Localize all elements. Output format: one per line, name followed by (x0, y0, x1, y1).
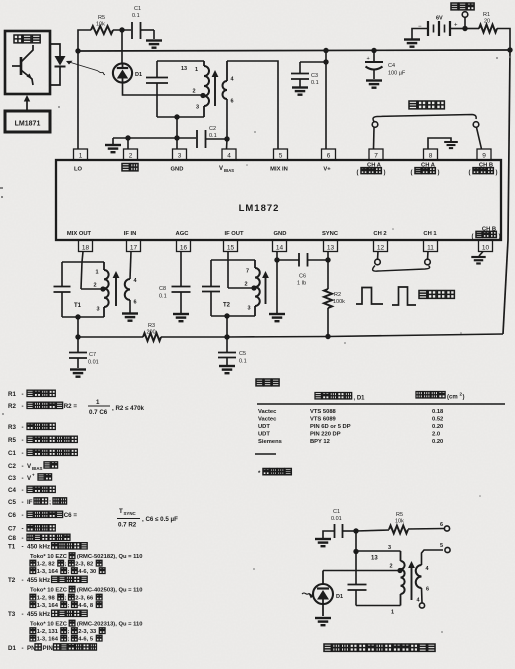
svg-text:T3: T3 (8, 611, 16, 618)
svg-text:2: 2 (390, 564, 393, 570)
svg-text:LM1871: LM1871 (15, 121, 41, 128)
svg-text:1-3, 164: 1-3, 164 (37, 603, 59, 609)
svg-text:D1: D1 (135, 72, 142, 78)
svg-text:14: 14 (276, 245, 284, 252)
svg-text:;: ; (68, 637, 70, 643)
note T2 turns b (30, 602, 102, 609)
wire pin9 riser (477, 128, 482, 150)
svg-text:-: - (22, 535, 24, 542)
pin label GND bottom (274, 231, 287, 237)
note T3 toko (30, 620, 142, 627)
svg-text:0.18: 0.18 (432, 409, 444, 415)
svg-text:R3: R3 (8, 424, 16, 431)
wire pin4 stub (226, 139, 229, 149)
detail light squiggle (302, 593, 314, 598)
IC top pin boxes 1-9 (74, 149, 492, 160)
capacitor C2 (197, 126, 227, 148)
svg-text:C2: C2 (8, 463, 16, 470)
svg-text:17: 17 (130, 245, 138, 252)
svg-text:T1: T1 (74, 303, 82, 309)
svg-text:Toko* 10 EZC: Toko* 10 EZC (30, 622, 68, 628)
note R2 fraction (88, 399, 145, 416)
note T1 toko (30, 553, 142, 560)
terminal CH1 (425, 259, 431, 265)
T1 tank bottom rail (62, 314, 104, 319)
svg-text:LO: LO (74, 167, 83, 173)
pin label CH 1 (423, 231, 437, 237)
wire pin16 drop (180, 252, 182, 287)
svg-text:6V: 6V (436, 16, 443, 22)
pin label MIX IN (270, 167, 288, 173)
svg-text:V: V (219, 166, 223, 172)
svg-text:0.1: 0.1 (159, 294, 167, 300)
svg-text:1-3, 164: 1-3, 164 (37, 637, 59, 643)
svg-text:-: - (22, 424, 24, 431)
table row Vactec VTS 6089 (258, 417, 443, 423)
svg-text:4-6, 30: 4-6, 30 (78, 569, 96, 575)
ground battery (404, 40, 420, 47)
svg-text:+: + (454, 23, 458, 29)
svg-text:GND: GND (274, 231, 287, 237)
svg-text:1-2, 98: 1-2, 98 (37, 596, 56, 602)
terminal CH A collector (372, 122, 378, 128)
svg-text:-: - (22, 391, 24, 398)
wire R1 to right edge (497, 29, 510, 51)
label 模拟输出 (419, 291, 454, 299)
svg-text:R2: R2 (8, 403, 16, 410)
svg-text:(RMC-402503), Qu = 110: (RMC-402503), Qu = 110 (77, 588, 143, 594)
svg-text:T2: T2 (223, 303, 231, 309)
svg-text:100 µF: 100 µF (388, 71, 406, 77)
ground C8 (173, 314, 189, 321)
table bottom stub rule (255, 453, 276, 455)
pin label V+ (323, 167, 331, 173)
svg-text:12: 12 (377, 245, 385, 252)
svg-text:-: - (22, 463, 24, 470)
svg-text:C3: C3 (8, 475, 16, 482)
detail wire C1 to box (353, 531, 358, 554)
svg-text:Toko* 10 EZC: Toko* 10 EZC (30, 554, 68, 560)
svg-text:1 Ib: 1 Ib (297, 281, 306, 287)
svg-text:VTS 5088: VTS 5088 (310, 409, 337, 415)
pin label CH 2 (373, 231, 386, 237)
svg-text:): ) (499, 234, 501, 240)
resistor R1 (465, 12, 497, 33)
pin label MIX OUT (67, 231, 92, 237)
transformer T1 secondary (125, 252, 138, 313)
svg-text:-: - (22, 450, 24, 457)
svg-text:;: ; (68, 603, 70, 609)
svg-text:T1: T1 (8, 544, 16, 551)
svg-text:13: 13 (371, 556, 378, 562)
svg-text:3: 3 (196, 105, 199, 111)
svg-text:1: 1 (79, 153, 83, 160)
svg-text:18: 18 (82, 245, 90, 252)
svg-text:C5: C5 (239, 351, 246, 357)
transformer T1 primary coil (74, 262, 109, 317)
ground C7 (70, 370, 86, 377)
pin label CH B emitter (472, 227, 501, 241)
wire pin14 drop (274, 252, 279, 314)
svg-text:R2 =: R2 = (64, 403, 78, 410)
node rail-LO (75, 48, 80, 53)
svg-text:6: 6 (426, 587, 429, 593)
svg-text:D1: D1 (336, 594, 343, 600)
pin8 emitter ground wire (428, 138, 451, 149)
svg-text:Toko* 10 EZC: Toko* 10 EZC (30, 588, 68, 594)
svg-text:R1: R1 (483, 12, 490, 18)
svg-text:0.1: 0.1 (311, 80, 319, 86)
note R1 load decoupling (8, 390, 55, 398)
svg-text:13: 13 (181, 66, 187, 72)
table row UDT PIN 6D or 5 DP (258, 424, 443, 430)
node R5-C1-D1 (119, 27, 124, 32)
svg-text:200: 200 (147, 330, 156, 336)
terminal CH2 (375, 259, 381, 265)
table header area (416, 392, 465, 401)
svg-text:(: ( (357, 170, 359, 176)
bottom rail left (78, 336, 143, 338)
svg-text:10: 10 (482, 245, 490, 252)
svg-text:IF: IF (27, 499, 33, 506)
light coupling arrow from LED to D1 (66, 61, 105, 75)
detail tank bottom rail (356, 606, 401, 616)
wire pin3 GND riser (176, 117, 178, 149)
svg-text:100k: 100k (333, 299, 345, 305)
svg-text:11: 11 (427, 245, 434, 252)
svg-text:): ) (438, 170, 440, 176)
terminal CH B collector (473, 122, 479, 128)
T2 tank capacitor (202, 260, 220, 316)
svg-text:D1: D1 (8, 645, 16, 652)
svg-text:, R2 ≤ 470k: , R2 ≤ 470k (112, 405, 145, 412)
pin label CH B (469, 163, 498, 177)
svg-text:2-3, 33: 2-3, 33 (78, 629, 97, 635)
battery B1 6V (412, 16, 465, 39)
svg-text:C7: C7 (89, 352, 96, 358)
svg-text:-: - (22, 577, 24, 584)
svg-text:;: ; (68, 569, 70, 575)
note R5 photodiode decoupling (8, 436, 77, 444)
ground crystal (105, 138, 121, 152)
note T2 toko (30, 586, 142, 593)
note C4 load decoupling (8, 486, 55, 494)
note T1 turns b (30, 568, 105, 575)
detail ground D1 (315, 618, 331, 625)
svg-text:8: 8 (429, 153, 433, 160)
table top rule (257, 403, 505, 405)
svg-text:3: 3 (178, 153, 182, 160)
note R2 sync timer (8, 402, 77, 410)
svg-text:−: − (418, 24, 422, 30)
svg-text:PIN 6D or 5 DP: PIN 6D or 5 DP (310, 424, 351, 430)
svg-text:3: 3 (248, 306, 251, 312)
capacitor C7 (69, 337, 99, 368)
svg-text:2-3, 82: 2-3, 82 (75, 562, 93, 568)
detail tap wire D1 to coil (323, 570, 400, 572)
svg-text:R5: R5 (98, 15, 105, 21)
svg-text:C4: C4 (8, 487, 16, 494)
wire pin2 stub (127, 138, 129, 149)
wire pin13 drop (325, 252, 330, 290)
note C8 AGC (8, 534, 70, 542)
photodiode D1 (113, 63, 142, 82)
ground T1 secondary (122, 314, 138, 321)
note C6 sync timer (8, 511, 77, 519)
transistor Q1 in driver box (12, 45, 33, 85)
detail tank left/cap (348, 551, 367, 606)
svg-text:Vactec: Vactec (258, 409, 277, 415)
T1 tap wire (81, 288, 101, 290)
wire pin15 drop (227, 252, 229, 289)
svg-text:0.1: 0.1 (239, 359, 247, 365)
svg-text:9: 9 (482, 153, 486, 160)
detail coupling arrow (408, 561, 415, 600)
svg-text:, C6 ≤ 0.5 µF: , C6 ≤ 0.5 µF (142, 516, 178, 523)
note C6 fraction (117, 508, 178, 529)
pin label IF OUT (225, 231, 244, 237)
svg-text:(cm: (cm (447, 395, 458, 401)
svg-text:0.20: 0.20 (432, 424, 443, 430)
svg-text:V+: V+ (323, 167, 331, 173)
svg-text:VTS 6089: VTS 6089 (310, 417, 337, 423)
svg-text:-: - (22, 499, 24, 506)
svg-text:C2: C2 (209, 126, 216, 132)
wire pin18 drop (81, 252, 83, 290)
table row Vactec VTS 5088 (258, 409, 444, 415)
T2 tank bottom rail (211, 313, 255, 318)
note R3 preamp decoupling (8, 423, 55, 431)
svg-text:R3: R3 (148, 323, 155, 329)
note T2 turns a (30, 594, 102, 601)
svg-text:1: 1 (96, 270, 99, 276)
svg-text:R5: R5 (396, 512, 403, 518)
node rail right corner (507, 47, 512, 52)
svg-text:UDT: UDT (258, 424, 270, 430)
svg-text:PIN: PIN (43, 645, 54, 652)
wire pin12 stub (377, 252, 380, 260)
svg-text:AGC: AGC (176, 231, 190, 237)
resistor R2 (324, 289, 345, 308)
svg-text:2: 2 (94, 283, 97, 289)
note C1 photodiode decoupling (8, 449, 77, 457)
svg-text:-: - (22, 475, 24, 482)
detail photodiode D1 (313, 571, 343, 617)
svg-text:450 kHz: 450 kHz (27, 544, 50, 551)
svg-text:10k: 10k (395, 519, 404, 525)
svg-text:0.7 C6: 0.7 C6 (89, 409, 108, 416)
svg-text:;: ; (65, 596, 67, 602)
ground pin8 (444, 142, 458, 148)
transformer T3 primary coil (181, 61, 209, 117)
resistor R3 (143, 323, 161, 341)
svg-text:1-3, 164: 1-3, 164 (37, 569, 59, 575)
pin label CH A (411, 163, 440, 177)
svg-text:C1: C1 (333, 509, 340, 515)
pin label 晶体 (122, 164, 138, 171)
svg-text:C8: C8 (8, 535, 16, 542)
svg-text:T2: T2 (8, 577, 16, 584)
T1 coupling arrow (113, 271, 120, 306)
wire T3 secondary to MIX IN (227, 61, 278, 149)
svg-text:;: ; (68, 629, 70, 635)
svg-text:SYNC: SYNC (124, 511, 137, 516)
svg-text:5: 5 (279, 153, 283, 160)
IC bottom pin boxes 10-18 (79, 240, 493, 252)
svg-text:MIX OUT: MIX OUT (67, 231, 92, 237)
wire pin11 stub (427, 252, 430, 260)
label 数字输出 (409, 101, 444, 109)
svg-text:0.7 R2: 0.7 R2 (118, 522, 137, 529)
pin label CH A (357, 163, 386, 177)
capacitor C5 (218, 337, 247, 365)
LED D2 bracket on driver box (50, 44, 66, 85)
svg-text:13: 13 (327, 245, 335, 252)
svg-text:0.1: 0.1 (132, 13, 140, 19)
resistor R5 (91, 15, 113, 34)
svg-text:-: - (22, 611, 24, 618)
svg-text:CH 2: CH 2 (373, 231, 386, 237)
IC U1 LM1872 body (56, 160, 501, 240)
node load terminal (462, 26, 467, 31)
wire pin6 V+ riser (323, 48, 328, 149)
wire T1 to bottom rail (75, 317, 80, 340)
transformer T2 primary coil (223, 260, 260, 316)
note T3 input transformer (8, 610, 87, 618)
svg-text:6: 6 (231, 99, 234, 105)
T3 coupling arrow (212, 70, 219, 106)
detail primary coil (390, 551, 405, 606)
svg-text:): ) (496, 170, 498, 176)
svg-text:C8: C8 (159, 286, 166, 292)
svg-text:0.01: 0.01 (88, 360, 99, 366)
svg-text:Siemens: Siemens (258, 439, 282, 445)
T2 coupling arrow (262, 271, 269, 304)
svg-text:IF OUT: IF OUT (225, 231, 244, 237)
svg-text:10k: 10k (96, 22, 105, 28)
svg-text:455 kHz: 455 kHz (27, 611, 50, 618)
svg-text:1: 1 (96, 399, 100, 406)
note D1 photodiode type (8, 644, 96, 652)
capacitor C8 (159, 286, 191, 313)
svg-text:C6 =: C6 = (64, 512, 78, 519)
svg-text:): ) (463, 395, 465, 401)
svg-text:C6: C6 (8, 512, 16, 519)
detail node C1-R5 (353, 528, 358, 533)
svg-text:-: - (22, 512, 24, 519)
svg-text:20: 20 (484, 19, 490, 25)
analog output link line (373, 266, 430, 272)
note T1 preamp transformer (8, 543, 87, 551)
note T1 turns a (30, 560, 102, 567)
svg-text:2: 2 (193, 89, 196, 95)
ground pin14 (269, 314, 285, 321)
wire D1 anode to T3 tap (123, 83, 203, 96)
svg-text:-: - (22, 526, 24, 533)
wire D1 cathode riser (121, 30, 123, 64)
svg-text:5: 5 (440, 543, 443, 549)
svg-text:7: 7 (374, 153, 378, 160)
detail terminal 5 (440, 543, 450, 553)
T1 tank capacitor (54, 262, 71, 317)
svg-text:C7: C7 (8, 526, 16, 533)
node C2-T3sec-VBIAS (224, 136, 229, 141)
waveform pulse 2 (392, 287, 416, 305)
svg-text:C5: C5 (8, 499, 16, 506)
svg-text:UDT: UDT (258, 432, 270, 438)
note T3 turns a (30, 628, 105, 635)
svg-text:;: ; (65, 562, 67, 568)
pin label VBIAS (219, 166, 234, 173)
svg-text:4-6, 8: 4-6, 8 (78, 603, 94, 609)
svg-text:BIAS: BIAS (32, 466, 43, 471)
pin label LO (74, 167, 83, 173)
load terminal (至负载) (451, 3, 474, 29)
pin label SYNC (322, 231, 339, 237)
svg-text:0.52: 0.52 (432, 417, 443, 423)
svg-text:2: 2 (129, 153, 133, 160)
svg-text:3: 3 (388, 545, 391, 551)
note C7 preamp decoupling (8, 525, 55, 533)
svg-text:(: ( (469, 170, 471, 176)
detail terminal 4 (417, 598, 425, 609)
svg-text:16: 16 (180, 245, 188, 252)
wire R2 to bottom rail (325, 308, 330, 339)
wire R5 to C1 (113, 29, 131, 31)
table row UDT PIN 220 DP (258, 432, 440, 438)
svg-text:BIAS: BIAS (224, 168, 234, 173)
ground C3 (292, 88, 308, 95)
svg-text:1-2, 131: 1-2, 131 (37, 629, 59, 635)
svg-text:1: 1 (195, 67, 198, 73)
wire T2 to bottom rail (224, 316, 229, 340)
svg-text:6: 6 (134, 300, 137, 306)
T2 tap wire (228, 287, 252, 289)
pin label GND top (171, 167, 184, 173)
svg-text:(RMC-202313), Qu = 110: (RMC-202313), Qu = 110 (77, 622, 143, 628)
note C2 VBIAS bypass (8, 462, 58, 471)
note T3 turns b (30, 635, 102, 642)
digital output link line (373, 115, 476, 122)
svg-text:(: ( (472, 234, 474, 240)
T2 tank top rail (211, 259, 255, 261)
note T2 IF transformer (8, 576, 87, 584)
label 底视图 (256, 379, 279, 386)
svg-text:(: ( (411, 170, 413, 176)
svg-text:15: 15 (227, 245, 235, 252)
svg-text:R1: R1 (8, 391, 16, 398)
svg-text:C4: C4 (388, 63, 395, 69)
detail secondary coil (416, 550, 443, 603)
wire crystal row (113, 135, 196, 140)
ground C1 (146, 41, 162, 48)
svg-text:6: 6 (327, 153, 331, 160)
detail caption (324, 644, 435, 651)
svg-text:2.0: 2.0 (432, 432, 440, 438)
note C3 V+ bypass (8, 473, 52, 483)
svg-text:): ) (384, 170, 386, 176)
detail capacitor C1 (323, 509, 356, 538)
footnote US company (258, 469, 291, 478)
svg-text:4-6, 5: 4-6, 5 (78, 637, 94, 643)
svg-text:-: - (22, 544, 24, 551)
svg-text:C3: C3 (311, 73, 318, 79)
pin label IF IN (124, 231, 137, 237)
pin label AGC (176, 231, 190, 237)
svg-text:, D1: , D1 (354, 396, 366, 402)
capacitor C3 (291, 59, 329, 86)
svg-text:+: + (32, 473, 35, 478)
